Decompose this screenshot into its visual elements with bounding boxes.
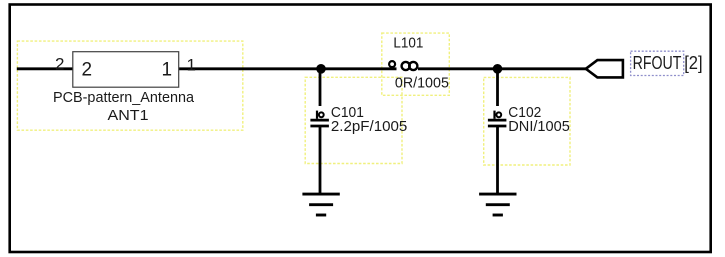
node junction 1 xyxy=(316,64,326,74)
selection box ANT1 xyxy=(17,41,242,130)
antenna ANT1 body xyxy=(73,52,179,87)
svg-text:2.2pF/1005: 2.2pF/1005 xyxy=(331,118,407,135)
svg-text:PCB-pattern_Antenna: PCB-pattern_Antenna xyxy=(53,89,195,106)
wire L101 to RFOUT port xyxy=(418,67,586,70)
selection box C102 xyxy=(484,77,570,165)
ground for C102 xyxy=(479,194,516,215)
wire left of ANT1 xyxy=(17,67,73,70)
net name box xyxy=(631,51,684,75)
svg-text:1: 1 xyxy=(162,60,173,81)
selection box C101 xyxy=(305,77,402,163)
ground for C101 xyxy=(302,194,339,215)
wire ANT1 to L101 xyxy=(179,67,397,70)
svg-text:2: 2 xyxy=(55,55,64,74)
capacitor C102 xyxy=(488,69,507,193)
svg-text:DNI/1005: DNI/1005 xyxy=(508,118,570,135)
selection box L101 xyxy=(382,33,450,95)
svg-text:L101: L101 xyxy=(393,35,423,52)
svg-text:[2]: [2] xyxy=(684,52,702,73)
svg-text:1: 1 xyxy=(187,55,196,74)
port RFOUT xyxy=(586,60,623,77)
svg-text:2: 2 xyxy=(82,60,93,81)
svg-text:ANT1: ANT1 xyxy=(108,107,149,124)
node junction 2 xyxy=(493,64,503,74)
capacitor C101 xyxy=(310,69,329,193)
inductor L101 xyxy=(389,61,417,70)
svg-text:RFOUT: RFOUT xyxy=(633,52,682,73)
svg-text:0R/1005: 0R/1005 xyxy=(395,75,449,92)
